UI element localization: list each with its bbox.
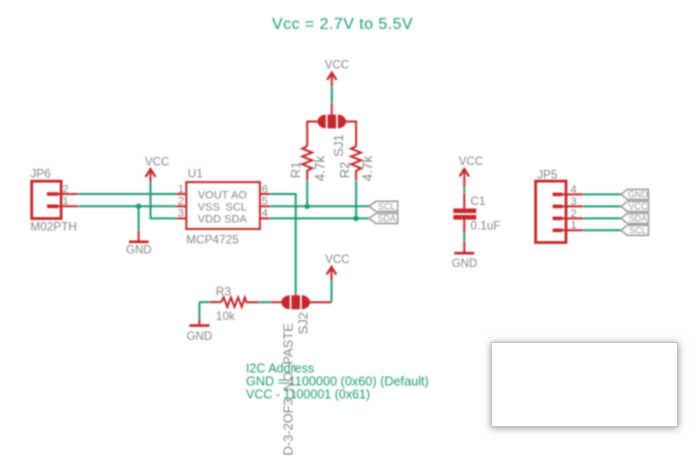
svg-text:VDD: VDD	[198, 214, 221, 226]
svg-text:4.7k: 4.7k	[312, 156, 327, 182]
svg-text:GND: GND	[187, 331, 213, 343]
svg-text:3: 3	[178, 208, 184, 220]
svg-text:VCC: VCC	[628, 202, 648, 212]
svg-text:4: 4	[571, 184, 577, 196]
svg-text:R1: R1	[288, 162, 303, 179]
svg-text:R2: R2	[337, 162, 352, 179]
svg-text:SCL: SCL	[629, 226, 647, 236]
svg-text:VCC: VCC	[325, 254, 349, 266]
svg-text:R3: R3	[216, 284, 232, 298]
svg-text:GND: GND	[628, 190, 649, 200]
svg-text:SDA: SDA	[629, 214, 648, 224]
svg-text:M02PTH: M02PTH	[30, 219, 77, 233]
svg-text:VCC - 1100001 (0x61): VCC - 1100001 (0x61)	[246, 387, 370, 401]
svg-text:MCP4725: MCP4725	[186, 233, 239, 247]
svg-text:3: 3	[571, 196, 577, 208]
svg-text:2: 2	[62, 183, 68, 195]
svg-text:JP6: JP6	[30, 167, 51, 181]
svg-text:5: 5	[262, 196, 268, 208]
svg-text:C1: C1	[470, 194, 485, 208]
svg-text:1: 1	[178, 183, 184, 195]
svg-text:SDA: SDA	[224, 214, 247, 226]
svg-text:U1: U1	[188, 167, 203, 181]
svg-text:2: 2	[571, 208, 577, 220]
svg-text:SJ2: SJ2	[296, 312, 311, 334]
svg-text:GND: GND	[452, 258, 478, 270]
svg-text:4.7k: 4.7k	[360, 156, 375, 182]
svg-text:I2C Address: I2C Address	[246, 362, 314, 376]
svg-text:SCL: SCL	[378, 202, 396, 212]
svg-text:Vcc = 2.7V to 5.5V: Vcc = 2.7V to 5.5V	[272, 16, 413, 33]
svg-text:GND: GND	[126, 244, 152, 256]
svg-text:JP5: JP5	[537, 167, 558, 181]
svg-text:6: 6	[262, 183, 268, 195]
svg-text:AO: AO	[231, 190, 247, 202]
svg-text:VCC: VCC	[325, 60, 349, 72]
svg-text:2: 2	[178, 196, 184, 208]
svg-text:4: 4	[262, 208, 268, 220]
svg-text:1: 1	[62, 196, 68, 208]
svg-text:VSS: VSS	[198, 202, 220, 214]
svg-text:VCC: VCC	[145, 156, 169, 168]
svg-text:SDA: SDA	[378, 214, 397, 224]
svg-text:1: 1	[571, 220, 577, 232]
svg-text:VOUT: VOUT	[198, 190, 229, 202]
svg-text:SCL: SCL	[225, 202, 246, 214]
svg-text:0.1uF: 0.1uF	[470, 219, 500, 233]
svg-text:10k: 10k	[216, 309, 235, 323]
svg-text:SJ1: SJ1	[331, 134, 346, 156]
svg-text:VCC: VCC	[459, 156, 483, 168]
